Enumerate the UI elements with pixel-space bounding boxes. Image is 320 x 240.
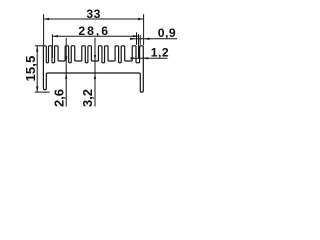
arrowhead 0,9 pointing left: [144, 38, 150, 40]
dimension line 33: [44, 18, 144, 20]
svg-text:1,2: 1,2: [151, 46, 169, 60]
dimension line 2,6: [65, 38, 67, 107]
svg-text:3,2: 3,2: [80, 89, 95, 107]
extension line left of 33: [43, 14, 45, 45]
arrowhead 28,6 right: [133, 35, 139, 37]
svg-text:2,6: 2,6: [51, 89, 66, 107]
arrowhead 0,9 pointing right: [130, 38, 135, 40]
extension stub fin face: [136, 32, 138, 45]
arrowhead 2,6 down: [65, 56, 67, 62]
dimension leader 0,9 right tail: [144, 38, 177, 40]
arrowhead 3,2 down: [94, 55, 96, 61]
arrowhead 28,6 left: [52, 35, 58, 37]
extension stub for 0,9: [139, 35, 141, 45]
svg-text:15,5: 15,5: [23, 55, 38, 81]
extension tick bottom of 15,5: [35, 91, 50, 93]
dimension line 3,2: [94, 38, 96, 107]
arrowhead 3,2 up: [94, 73, 96, 79]
dimension leader 0,9 left tail: [130, 38, 144, 40]
svg-text:28,6: 28,6: [78, 24, 110, 38]
extension line right of 33: [143, 14, 145, 45]
dimension line 28,6: [52, 35, 138, 37]
dimension line 15,5: [36, 46, 38, 92]
arrowhead 15,5 up: [36, 46, 38, 52]
extension tick top of 15,5: [35, 45, 44, 47]
arrowhead 33 right: [138, 18, 144, 20]
arrowhead 1,2 pointing right: [131, 57, 136, 59]
extension line right of 28,6: [138, 34, 140, 58]
extension line left of 28,6: [51, 34, 53, 58]
arrowhead 2,6 up: [65, 73, 67, 79]
svg-text:0,9: 0,9: [158, 26, 176, 40]
arrowhead 1,2 pointing left: [143, 57, 148, 59]
arrowhead 15,5 down: [36, 86, 38, 92]
dimension line 1,2: [131, 57, 168, 59]
svg-text:33: 33: [86, 7, 101, 21]
arrowhead 33 left: [44, 18, 50, 20]
heatsink profile outline: [43, 46, 143, 92]
